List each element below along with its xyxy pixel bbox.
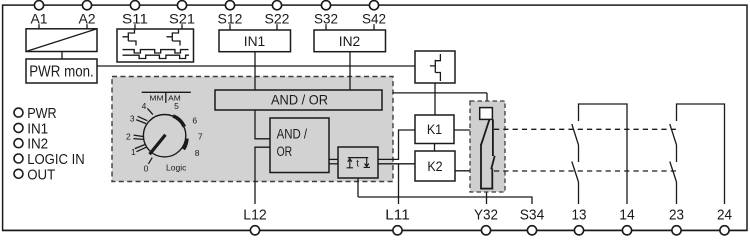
svg-text:IN2: IN2 — [339, 33, 361, 49]
LED IN1 — [14, 120, 48, 137]
wire driver to net93 — [434, 83, 436, 115]
wire net93 — [392, 92, 487, 94]
svg-text:6: 6 — [192, 115, 197, 125]
svg-text:0: 0 — [144, 163, 149, 173]
logic selector dial — [126, 92, 203, 173]
svg-text:14: 14 — [619, 208, 635, 224]
terminal S12 — [218, 1, 243, 27]
svg-text:S22: S22 — [265, 10, 290, 26]
svg-text:4: 4 — [142, 101, 147, 111]
terminal S21 — [169, 1, 195, 27]
wire AND/OR block to timer (upper) — [329, 158, 338, 160]
clock pulse waveform 2 — [123, 55, 190, 58]
semiconductor output driver box — [415, 51, 455, 83]
svg-text:L12: L12 — [243, 208, 267, 224]
wire S21 stub — [181, 24, 183, 29]
wire net93 to relay contacts — [486, 93, 488, 108]
relay coil K1 — [415, 115, 454, 144]
wire AND/OR bar to AND/OR block — [255, 110, 270, 139]
logic block AND/OR 2 — [270, 118, 329, 173]
relay coil K2 — [415, 151, 455, 181]
guided contact symbol head — [480, 108, 493, 120]
dial knob — [143, 115, 185, 157]
svg-text:S32: S32 — [314, 10, 338, 26]
guided contact blade 1 — [481, 120, 489, 145]
dial ticks 1 — [135, 145, 146, 152]
dial ticks 2 — [133, 135, 144, 139]
svg-text:L11: L11 — [385, 208, 410, 224]
wire contact to 13 — [578, 182, 580, 204]
svg-text:AND /: AND / — [277, 126, 308, 142]
wire power to PWR mon — [61, 52, 63, 60]
contact blade 23 upper — [670, 124, 677, 145]
terminal 24 — [717, 208, 732, 235]
dial tick 0 — [148, 158, 152, 164]
dial ticks 3 — [136, 116, 147, 123]
svg-text:A2: A2 — [78, 10, 95, 26]
LED PWR — [14, 105, 57, 122]
terminal L11 — [385, 208, 410, 235]
svg-text:IN1: IN1 — [244, 33, 266, 49]
transistor T1 (S11 clock driver) — [123, 29, 137, 46]
guided contact right bar upper — [492, 119, 494, 156]
transistor Q3 (output driver) — [430, 54, 441, 81]
LED LOGIC IN — [14, 151, 85, 168]
terminal L12 — [243, 208, 267, 235]
gray logic function frame — [112, 77, 393, 182]
wire K1-K2 link — [434, 144, 436, 152]
logic block AND/OR bar — [215, 90, 382, 110]
contact blade 13 upper — [572, 124, 579, 145]
terminal S34 — [520, 208, 545, 235]
wire S22 stub — [276, 24, 278, 30]
wire IN1 to AND/OR bar — [254, 52, 256, 90]
timer block — [338, 147, 378, 178]
LED IN2 — [14, 136, 48, 153]
terminal 23 — [669, 208, 684, 235]
wire S11 stub — [134, 24, 136, 29]
svg-text:S34: S34 — [520, 208, 545, 224]
wire AND/OR block to timer (lower) — [329, 163, 338, 165]
svg-text:K2: K2 — [427, 159, 442, 174]
svg-text:1: 1 — [131, 147, 136, 157]
wire PWR mon to output driver — [97, 65, 415, 67]
wire S42 stub — [373, 24, 375, 30]
wire AND/OR block to L12 — [255, 147, 270, 204]
svg-text:S21: S21 — [169, 10, 195, 26]
guided contact left bar — [480, 144, 482, 190]
clock output block S11/S21 — [117, 29, 194, 62]
svg-text:OR: OR — [277, 144, 293, 160]
svg-text:OUT: OUT — [27, 166, 55, 183]
svg-text:AND / OR: AND / OR — [271, 91, 328, 107]
wire IN2 to AND/OR bar — [349, 52, 351, 90]
wire between contacts 23 — [676, 145, 678, 162]
input block IN1 — [219, 30, 291, 52]
terminal S11 — [122, 1, 148, 27]
svg-text:S11: S11 — [122, 10, 148, 26]
wire K1 to contact block — [454, 129, 481, 131]
output contact branch 13-14 top — [579, 104, 628, 204]
input block IN2 — [314, 30, 386, 52]
dial tick 4 — [147, 108, 153, 114]
svg-text:Logic: Logic — [166, 163, 187, 173]
svg-text:K1: K1 — [427, 122, 442, 137]
dial thick arc 7-8 — [184, 139, 187, 150]
svg-text:S12: S12 — [218, 10, 243, 26]
wire contact to 23 — [676, 182, 678, 204]
wire S12 stub — [229, 24, 231, 30]
svg-text:S42: S42 — [362, 10, 386, 26]
LED OUT — [14, 166, 55, 183]
svg-text:PWR mon.: PWR mon. — [29, 64, 94, 81]
power supply unit box — [26, 29, 97, 52]
terminal 13 — [572, 208, 587, 235]
transistor T2 (S21 clock driver) — [167, 29, 181, 46]
svg-text:2: 2 — [126, 132, 131, 142]
terminal Y32 — [474, 208, 498, 235]
terminal A2 — [78, 1, 95, 27]
bus L11/Y32/S34 — [358, 197, 532, 204]
wire timer upper out to K1 — [378, 130, 415, 159]
svg-text:3: 3 — [130, 114, 135, 124]
mechanical linkage dashed line 1 — [494, 128, 677, 130]
svg-text:8: 8 — [195, 148, 200, 158]
svg-text:23: 23 — [669, 208, 684, 224]
svg-text:MM: MM — [149, 94, 163, 103]
wire S32 stub — [325, 24, 327, 30]
dial MM|AM scale label — [142, 92, 191, 103]
wire Y32 — [486, 189, 488, 205]
wire between contacts 13 — [578, 145, 580, 162]
wire timer bottom to bus — [357, 178, 359, 197]
wire to L11 — [398, 164, 400, 204]
terminal A1 — [30, 1, 47, 27]
contact blade 23 lower — [670, 162, 677, 183]
wire K2 to contact block — [455, 170, 481, 172]
dial pointer — [150, 135, 166, 155]
forcibly guided contact block (gray) — [470, 101, 505, 192]
contact blade 13 lower — [572, 162, 579, 183]
svg-text:13: 13 — [572, 208, 587, 224]
block PWR mon — [26, 59, 97, 83]
terminal S22 — [265, 1, 290, 27]
svg-text:7: 7 — [198, 132, 203, 142]
svg-text:A1: A1 — [30, 10, 47, 26]
guided contact bottom cap — [480, 188, 493, 190]
wire A2 stub — [86, 24, 88, 29]
mechanical linkage dashed line 2 — [494, 170, 677, 172]
svg-text:5: 5 — [174, 101, 179, 111]
terminal S42 — [362, 1, 386, 27]
output contact branch 23-24 top — [677, 104, 725, 204]
terminal S32 — [314, 1, 338, 27]
wire timer lower out to K2 — [378, 163, 415, 165]
svg-text:Y32: Y32 — [474, 208, 498, 224]
svg-text:24: 24 — [717, 208, 732, 224]
wire A1 stub — [38, 24, 40, 29]
guided contact blade 2 — [491, 156, 495, 169]
svg-text:t: t — [356, 158, 359, 169]
terminal 14 — [619, 208, 635, 235]
clock pulse waveform 1 — [123, 50, 189, 53]
guided contact right bar lower — [491, 169, 493, 190]
dial thick arc 5-6 — [173, 116, 184, 127]
